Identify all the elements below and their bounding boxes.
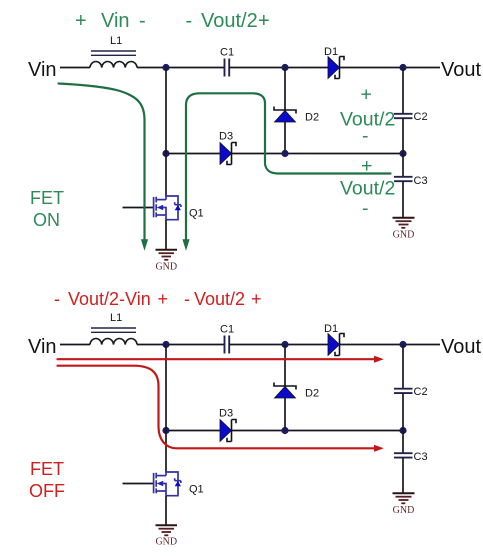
svg-text:Vout/2: Vout/2 xyxy=(340,178,395,200)
svg-text:Vin: Vin xyxy=(28,336,57,358)
diode D2 (top, schottky vertical) xyxy=(274,107,296,123)
svg-text:-: - xyxy=(139,10,146,32)
svg-text:D2: D2 xyxy=(305,112,319,124)
junction rail-mid (top) xyxy=(162,150,169,157)
wire D2 branch upper (bottom) xyxy=(284,345,286,386)
wire D3 branch right (bottom) xyxy=(232,430,404,432)
label + Vout/2 - across C3 (top green) xyxy=(340,155,395,220)
wire C2 to junction (bottom) xyxy=(402,393,404,430)
diode D3 (top, schottky) xyxy=(220,143,236,165)
svg-text:+: + xyxy=(158,289,169,309)
svg-text:ON: ON xyxy=(33,210,60,230)
wire L1 to C1 (top) xyxy=(137,67,224,69)
svg-text:Vout/2: Vout/2 xyxy=(194,289,245,309)
capacitor C2 (top) xyxy=(394,114,413,118)
current flow path 2 (green, C3 loop) xyxy=(186,93,391,240)
svg-text:Vout/2: Vout/2 xyxy=(201,10,258,32)
wire Vin to L1 (top) xyxy=(60,67,90,69)
svg-text:L1: L1 xyxy=(110,312,122,324)
wire D1 to Vout (bottom) xyxy=(340,344,441,346)
label FET ON (green) xyxy=(30,188,64,230)
svg-text:-: - xyxy=(184,289,190,309)
svg-text:GND: GND xyxy=(393,230,415,241)
capacitor C3 (top) xyxy=(394,177,413,181)
svg-text:-: - xyxy=(362,125,369,147)
inductor L1 (top) xyxy=(90,51,137,68)
svg-text:C3: C3 xyxy=(414,175,428,187)
svg-text:FET: FET xyxy=(30,188,64,208)
wire C2 rail upper (top) xyxy=(402,68,404,115)
label FET OFF (red) xyxy=(29,459,65,501)
junction rail-mid (bottom) xyxy=(162,427,169,434)
svg-text:C2: C2 xyxy=(414,386,428,398)
svg-text:D2: D2 xyxy=(305,388,319,400)
label - Vout/2 + (top green) xyxy=(186,10,270,32)
svg-text:D1: D1 xyxy=(324,323,338,335)
capacitor C1 (bottom) xyxy=(225,336,230,354)
label - Vout/2-Vin + (bottom red) xyxy=(54,289,168,309)
label + Vin - (top green) xyxy=(75,10,146,32)
wire rail upper (top) xyxy=(165,68,167,154)
current flow path A (red, Vin through D1 to Vout) xyxy=(58,358,375,360)
svg-text:Vin: Vin xyxy=(101,10,130,32)
current flow path B (red, through D3 branch) xyxy=(58,366,375,449)
svg-text:Vout: Vout xyxy=(441,59,481,81)
svg-text:Q1: Q1 xyxy=(189,484,204,496)
label - Vout/2 + (bottom red) xyxy=(184,289,262,309)
wire Q1 source to ground (bottom) xyxy=(165,496,167,525)
junction D2-bottom (top) xyxy=(281,150,288,157)
transistor Q1 (top, N-MOSFET) xyxy=(154,196,181,220)
svg-text:OFF: OFF xyxy=(29,481,65,501)
diode D3 (bottom, schottky) xyxy=(220,420,236,442)
wire D3 branch left (bottom) xyxy=(166,430,220,432)
wire junction to C3 (top) xyxy=(402,154,404,178)
ground GND under C3 (top) xyxy=(393,218,415,241)
wire Vin to L1 (bottom) xyxy=(60,344,90,346)
junction D2-top (top) xyxy=(281,64,288,71)
wire C3 to ground (bottom) xyxy=(402,458,404,493)
svg-text:D3: D3 xyxy=(219,131,233,143)
ground GND under Q1 (bottom) xyxy=(155,525,177,547)
svg-text:+: + xyxy=(75,10,87,32)
diode D2 (bottom, schottky vertical) xyxy=(274,383,296,399)
ground GND under Q1 (top) xyxy=(155,250,177,273)
svg-text:GND: GND xyxy=(155,537,177,548)
current flow path 1 (green, Vin to Q1 to GND) xyxy=(59,84,145,241)
junction C2-top (bottom) xyxy=(399,341,406,348)
wire D2 branch upper (top) xyxy=(284,68,286,110)
svg-text:FET: FET xyxy=(30,459,64,479)
wire C3 to ground (top) xyxy=(402,181,404,217)
wire rail upper (bottom) xyxy=(165,345,167,431)
svg-text:GND: GND xyxy=(155,262,177,273)
label + Vout/2 - across C2 (top green) xyxy=(340,84,395,148)
svg-text:C3: C3 xyxy=(414,451,428,463)
arrowhead flow 2 (green) xyxy=(182,239,189,251)
svg-text:Vin: Vin xyxy=(28,59,57,81)
capacitor C2 (bottom) xyxy=(394,389,413,393)
wire D3 branch left (top) xyxy=(166,153,220,155)
wire C1 to D1 (top) xyxy=(229,67,328,69)
wire D3 branch right (top) xyxy=(232,153,404,155)
svg-text:Vout/2-Vin: Vout/2-Vin xyxy=(68,289,151,309)
svg-text:C1: C1 xyxy=(220,324,234,336)
svg-text:-: - xyxy=(186,10,193,32)
capacitor C1 (top) xyxy=(225,59,230,77)
wire Q1 source to ground (top) xyxy=(165,220,167,250)
junction C2-C3 (bottom) xyxy=(399,427,406,434)
ground GND under C3 (bottom) xyxy=(393,493,415,516)
wire C2 rail upper (bottom) xyxy=(402,345,404,390)
wire C1 to D1 (bottom) xyxy=(229,344,328,346)
wire C2 to junction (top) xyxy=(402,118,404,153)
diode D1 (bottom, schottky) xyxy=(328,334,344,356)
inductor L1 (bottom) xyxy=(90,328,137,345)
svg-text:-: - xyxy=(362,198,369,220)
diode D1 (top, schottky) xyxy=(328,57,344,79)
junction D2-bottom (bottom) xyxy=(281,427,288,434)
svg-text:C2: C2 xyxy=(414,111,428,123)
svg-text:Q1: Q1 xyxy=(189,208,204,220)
transistor Q1 (bottom, N-MOSFET) xyxy=(154,472,181,496)
wire D2 branch lower (bottom) xyxy=(284,398,286,431)
wire D2 branch lower (top) xyxy=(284,122,286,154)
wire junction to C3 (bottom) xyxy=(402,431,404,454)
arrowhead flow A (red) xyxy=(374,356,384,363)
svg-text:D3: D3 xyxy=(219,408,233,420)
wire Q1 gate stub (top) xyxy=(123,207,154,209)
junction rail-top (bottom) xyxy=(162,341,169,348)
svg-text:D1: D1 xyxy=(324,46,338,58)
wire rail to Q1 drain (top) xyxy=(165,154,167,197)
arrowhead flow 1 (green) xyxy=(141,239,148,251)
wire L1 to C1 (bottom) xyxy=(137,344,224,346)
capacitor C3 (bottom) xyxy=(394,453,413,457)
svg-text:+: + xyxy=(251,289,262,309)
svg-text:-: - xyxy=(54,289,60,309)
junction D2-top (bottom) xyxy=(281,341,288,348)
svg-text:+: + xyxy=(361,84,372,106)
svg-text:+: + xyxy=(258,10,270,32)
arrowhead flow B (red) xyxy=(374,445,384,452)
svg-text:L1: L1 xyxy=(110,35,122,47)
svg-text:GND: GND xyxy=(393,505,415,516)
svg-text:Vout: Vout xyxy=(441,336,481,358)
junction C2-C3 (top) xyxy=(399,150,406,157)
wire rail to Q1 drain (bottom) xyxy=(165,431,167,473)
wire D1 to Vout (top) xyxy=(340,67,441,69)
wire Q1 gate stub (bottom) xyxy=(123,483,154,485)
junction C2-top (top) xyxy=(399,64,406,71)
svg-text:C1: C1 xyxy=(220,47,234,59)
junction rail-top (top) xyxy=(162,64,169,71)
